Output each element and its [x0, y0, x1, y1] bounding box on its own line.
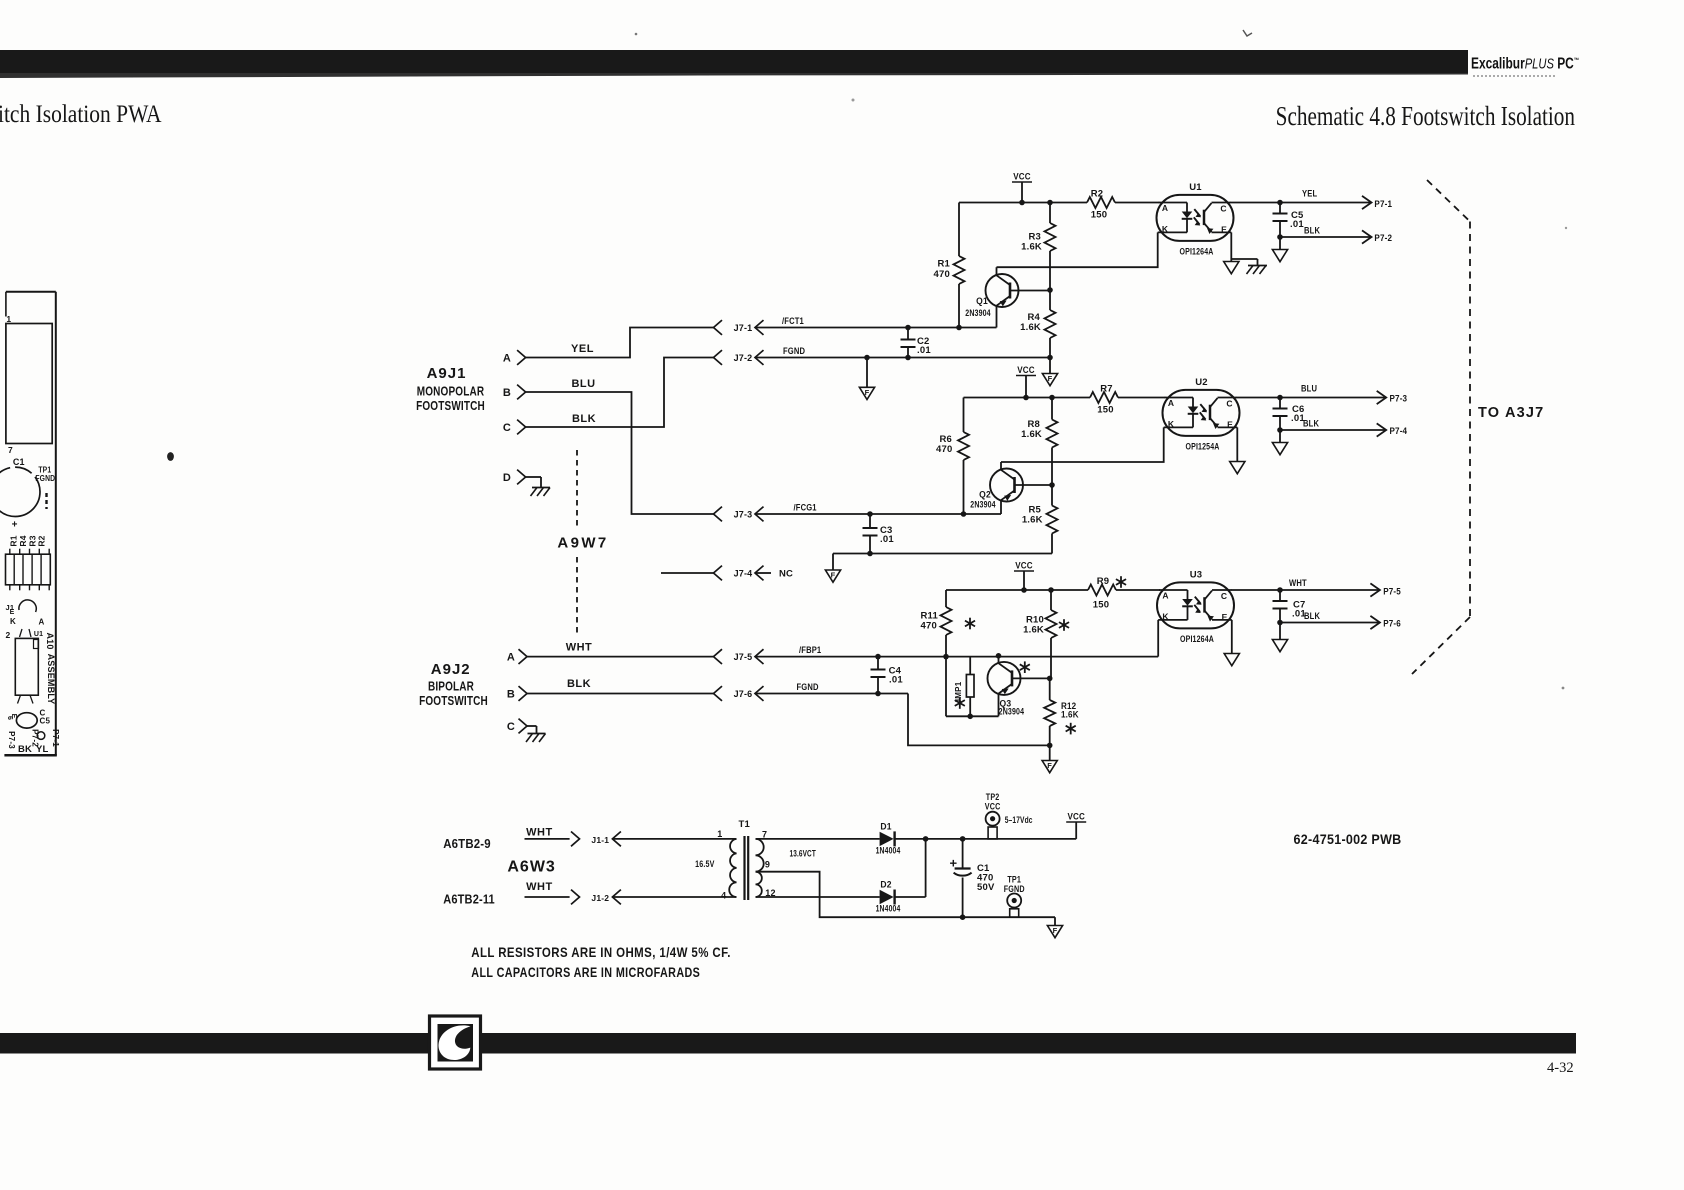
svg-text:2N3904: 2N3904	[970, 498, 996, 509]
svg-text:.01: .01	[880, 534, 894, 545]
svg-text:C: C	[1220, 203, 1226, 213]
svg-text:A6TB2-11: A6TB2-11	[443, 892, 495, 907]
svg-text:J7-3: J7-3	[734, 510, 753, 520]
svg-text:13.6VCT: 13.6VCT	[789, 848, 815, 859]
svg-text:C: C	[503, 422, 511, 434]
svg-text:P7-5: P7-5	[1383, 586, 1401, 597]
svg-text:62-4751-002 PWB: 62-4751-002 PWB	[1294, 832, 1402, 848]
svg-text:1.6K: 1.6K	[1023, 625, 1044, 636]
svg-text:P7-2: P7-2	[1374, 232, 1392, 243]
svg-text:OPI1264A: OPI1264A	[1180, 633, 1214, 644]
svg-text:J7-6: J7-6	[734, 689, 753, 699]
svg-text:2N3904: 2N3904	[999, 706, 1025, 717]
svg-text:NC: NC	[779, 569, 793, 580]
svg-text:K: K	[1162, 224, 1169, 234]
svg-text:VCC: VCC	[1013, 171, 1031, 182]
svg-text:A: A	[503, 353, 511, 365]
svg-text:D1: D1	[880, 821, 891, 832]
svg-text:K: K	[1162, 612, 1169, 622]
svg-text:9: 9	[765, 860, 770, 870]
svg-text:VCC: VCC	[1015, 560, 1033, 571]
svg-text:C: C	[1226, 398, 1232, 408]
svg-text:OPI1254A: OPI1254A	[1186, 440, 1220, 451]
svg-text:P7-1: P7-1	[51, 729, 60, 747]
svg-text:YEL: YEL	[571, 343, 594, 355]
svg-text:.01: .01	[917, 345, 931, 356]
svg-text:F: F	[865, 388, 870, 397]
svg-text:P7-3: P7-3	[1390, 393, 1408, 404]
svg-text:150: 150	[1093, 600, 1109, 611]
svg-text:/FBP1: /FBP1	[799, 644, 821, 655]
svg-text:2: 2	[6, 630, 11, 640]
svg-text:150: 150	[1097, 405, 1113, 416]
svg-text:50V: 50V	[977, 882, 995, 893]
svg-text:A6TB2-9: A6TB2-9	[443, 836, 491, 851]
svg-text:U2: U2	[1195, 377, 1208, 388]
svg-text:K: K	[1168, 419, 1175, 429]
svg-text:R7: R7	[1100, 384, 1113, 395]
svg-text:BLK: BLK	[567, 678, 591, 690]
svg-text:ASSEMBLY: ASSEMBLY	[46, 654, 56, 705]
svg-text:Schematic 4.8 Footswitch Isola: Schematic 4.8 Footswitch Isolation	[1276, 101, 1575, 131]
svg-text:1: 1	[6, 314, 11, 324]
svg-text:MONOPOLAR: MONOPOLAR	[417, 384, 485, 399]
svg-text:R2: R2	[37, 535, 47, 546]
svg-text:/FCG1: /FCG1	[794, 502, 817, 513]
svg-text:A: A	[1168, 398, 1174, 408]
svg-text:470: 470	[921, 621, 937, 632]
svg-text:C: C	[1221, 591, 1227, 601]
svg-text:C1: C1	[13, 457, 25, 467]
svg-text:K: K	[10, 617, 16, 626]
svg-text:YEL: YEL	[1302, 188, 1317, 199]
svg-text:B: B	[503, 387, 511, 399]
svg-text:BLK: BLK	[572, 413, 596, 425]
svg-text:A6W3: A6W3	[507, 859, 555, 876]
svg-text:1.6K: 1.6K	[1061, 709, 1079, 720]
svg-text:P7-3: P7-3	[7, 731, 16, 749]
svg-text:OPI1264A: OPI1264A	[1180, 245, 1214, 256]
svg-text:VCC: VCC	[985, 802, 1001, 812]
svg-text:D2: D2	[880, 879, 891, 890]
svg-text:J7-2: J7-2	[734, 353, 753, 363]
svg-text:150: 150	[1091, 210, 1107, 221]
svg-text:J7-5: J7-5	[734, 652, 753, 662]
svg-text:1: 1	[717, 829, 722, 839]
svg-text:TP2: TP2	[986, 792, 1000, 802]
svg-text:WHT: WHT	[526, 881, 553, 893]
svg-text:FGND: FGND	[797, 681, 819, 692]
svg-text:D: D	[503, 472, 511, 484]
svg-text:1.6K: 1.6K	[1021, 429, 1042, 440]
svg-text:WHT: WHT	[1289, 577, 1307, 588]
svg-text:A9J1: A9J1	[427, 365, 467, 382]
svg-text:F: F	[1053, 926, 1058, 935]
svg-text:J7-1: J7-1	[734, 323, 753, 333]
svg-text:J7-4: J7-4	[734, 569, 753, 579]
svg-text:+: +	[12, 520, 18, 531]
svg-text:BLK: BLK	[1304, 610, 1321, 621]
svg-text:E: E	[1221, 225, 1227, 235]
svg-text:FOOTSWITCH: FOOTSWITCH	[416, 399, 485, 414]
svg-text:1.6K: 1.6K	[1021, 242, 1042, 253]
svg-text:.01: .01	[889, 675, 903, 686]
svg-text:1.6K: 1.6K	[1022, 515, 1043, 526]
svg-text:TO A3J7: TO A3J7	[1478, 405, 1544, 421]
svg-text:FGND: FGND	[35, 473, 55, 483]
svg-text:C5: C5	[40, 717, 51, 726]
svg-text:R2: R2	[1091, 189, 1104, 200]
svg-text:5–17Vdc: 5–17Vdc	[1005, 815, 1033, 825]
svg-text:WHT: WHT	[566, 642, 593, 654]
svg-text:U1: U1	[1189, 182, 1202, 193]
svg-text:1N4004: 1N4004	[876, 845, 901, 855]
svg-text:+: +	[950, 856, 958, 871]
svg-text:4-32: 4-32	[1547, 1060, 1574, 1076]
svg-text:FOOTSWITCH: FOOTSWITCH	[419, 694, 488, 709]
svg-text:ALL RESISTORS ARE IN OHMS, 1/4: ALL RESISTORS ARE IN OHMS, 1/4W 5% CF.	[471, 944, 731, 960]
svg-text:R1: R1	[937, 259, 950, 270]
svg-text:BIPOLAR: BIPOLAR	[428, 679, 474, 694]
svg-text:A: A	[1162, 203, 1168, 213]
svg-text:BLU: BLU	[571, 378, 595, 390]
svg-text:TP1: TP1	[1007, 875, 1021, 885]
svg-text:C: C	[507, 721, 515, 733]
svg-text:P7-6: P7-6	[1383, 618, 1401, 629]
svg-text:A: A	[507, 652, 515, 664]
svg-text:4: 4	[721, 891, 726, 901]
svg-text:P7-1: P7-1	[1374, 198, 1392, 209]
svg-text:F: F	[831, 571, 836, 580]
svg-text:E: E	[10, 609, 15, 616]
svg-text:A: A	[1162, 591, 1168, 601]
svg-text:BLK: BLK	[1304, 225, 1321, 236]
svg-text:BLU: BLU	[1301, 383, 1317, 394]
svg-text:1.6K: 1.6K	[1020, 322, 1041, 333]
svg-text:A9W7: A9W7	[557, 535, 608, 552]
svg-text:1N4004: 1N4004	[876, 903, 901, 913]
svg-text:A10: A10	[45, 632, 55, 649]
svg-text:FGND: FGND	[783, 345, 805, 356]
svg-text:VCC: VCC	[1017, 364, 1035, 375]
svg-text:16.5V: 16.5V	[695, 858, 715, 869]
svg-text:470: 470	[936, 444, 952, 455]
svg-text:J1-2: J1-2	[591, 893, 609, 903]
svg-text:T1: T1	[739, 819, 751, 830]
svg-text:A: A	[39, 618, 45, 627]
svg-text:R9: R9	[1097, 576, 1110, 587]
svg-text:7: 7	[8, 445, 13, 455]
svg-text:/FCT1: /FCT1	[782, 315, 804, 326]
svg-text:FGND: FGND	[1004, 884, 1025, 894]
svg-text:F: F	[1048, 374, 1053, 383]
svg-text:U1: U1	[34, 631, 43, 638]
svg-text:VCC: VCC	[1067, 811, 1085, 822]
svg-text:J1-1: J1-1	[591, 835, 609, 845]
svg-text:YL: YL	[36, 744, 49, 755]
svg-text:F: F	[1047, 761, 1052, 770]
svg-text:ExcaliburPLUS PC™: ExcaliburPLUS PC™	[1471, 54, 1579, 72]
svg-text:BK: BK	[18, 744, 32, 755]
svg-text:U3: U3	[1190, 570, 1203, 581]
svg-text:ALL CAPACITORS ARE IN MICROFAR: ALL CAPACITORS ARE IN MICROFARADS	[471, 965, 700, 981]
svg-text:itch Isolation PWA: itch Isolation PWA	[0, 101, 162, 129]
svg-text:2N3904: 2N3904	[965, 307, 991, 318]
svg-text:E: E	[1222, 612, 1228, 622]
svg-text:WHT: WHT	[526, 827, 553, 839]
svg-text:A9J2: A9J2	[431, 661, 471, 678]
svg-text:B: B	[507, 689, 515, 701]
svg-text:470: 470	[934, 269, 950, 280]
svg-text:E: E	[1227, 420, 1233, 430]
svg-text:P7-4: P7-4	[1390, 425, 1408, 436]
svg-text:Q1: Q1	[976, 296, 988, 307]
svg-text:.01: .01	[1290, 219, 1304, 230]
svg-text:BLK: BLK	[1303, 418, 1320, 429]
svg-text:6: 6	[6, 716, 13, 720]
